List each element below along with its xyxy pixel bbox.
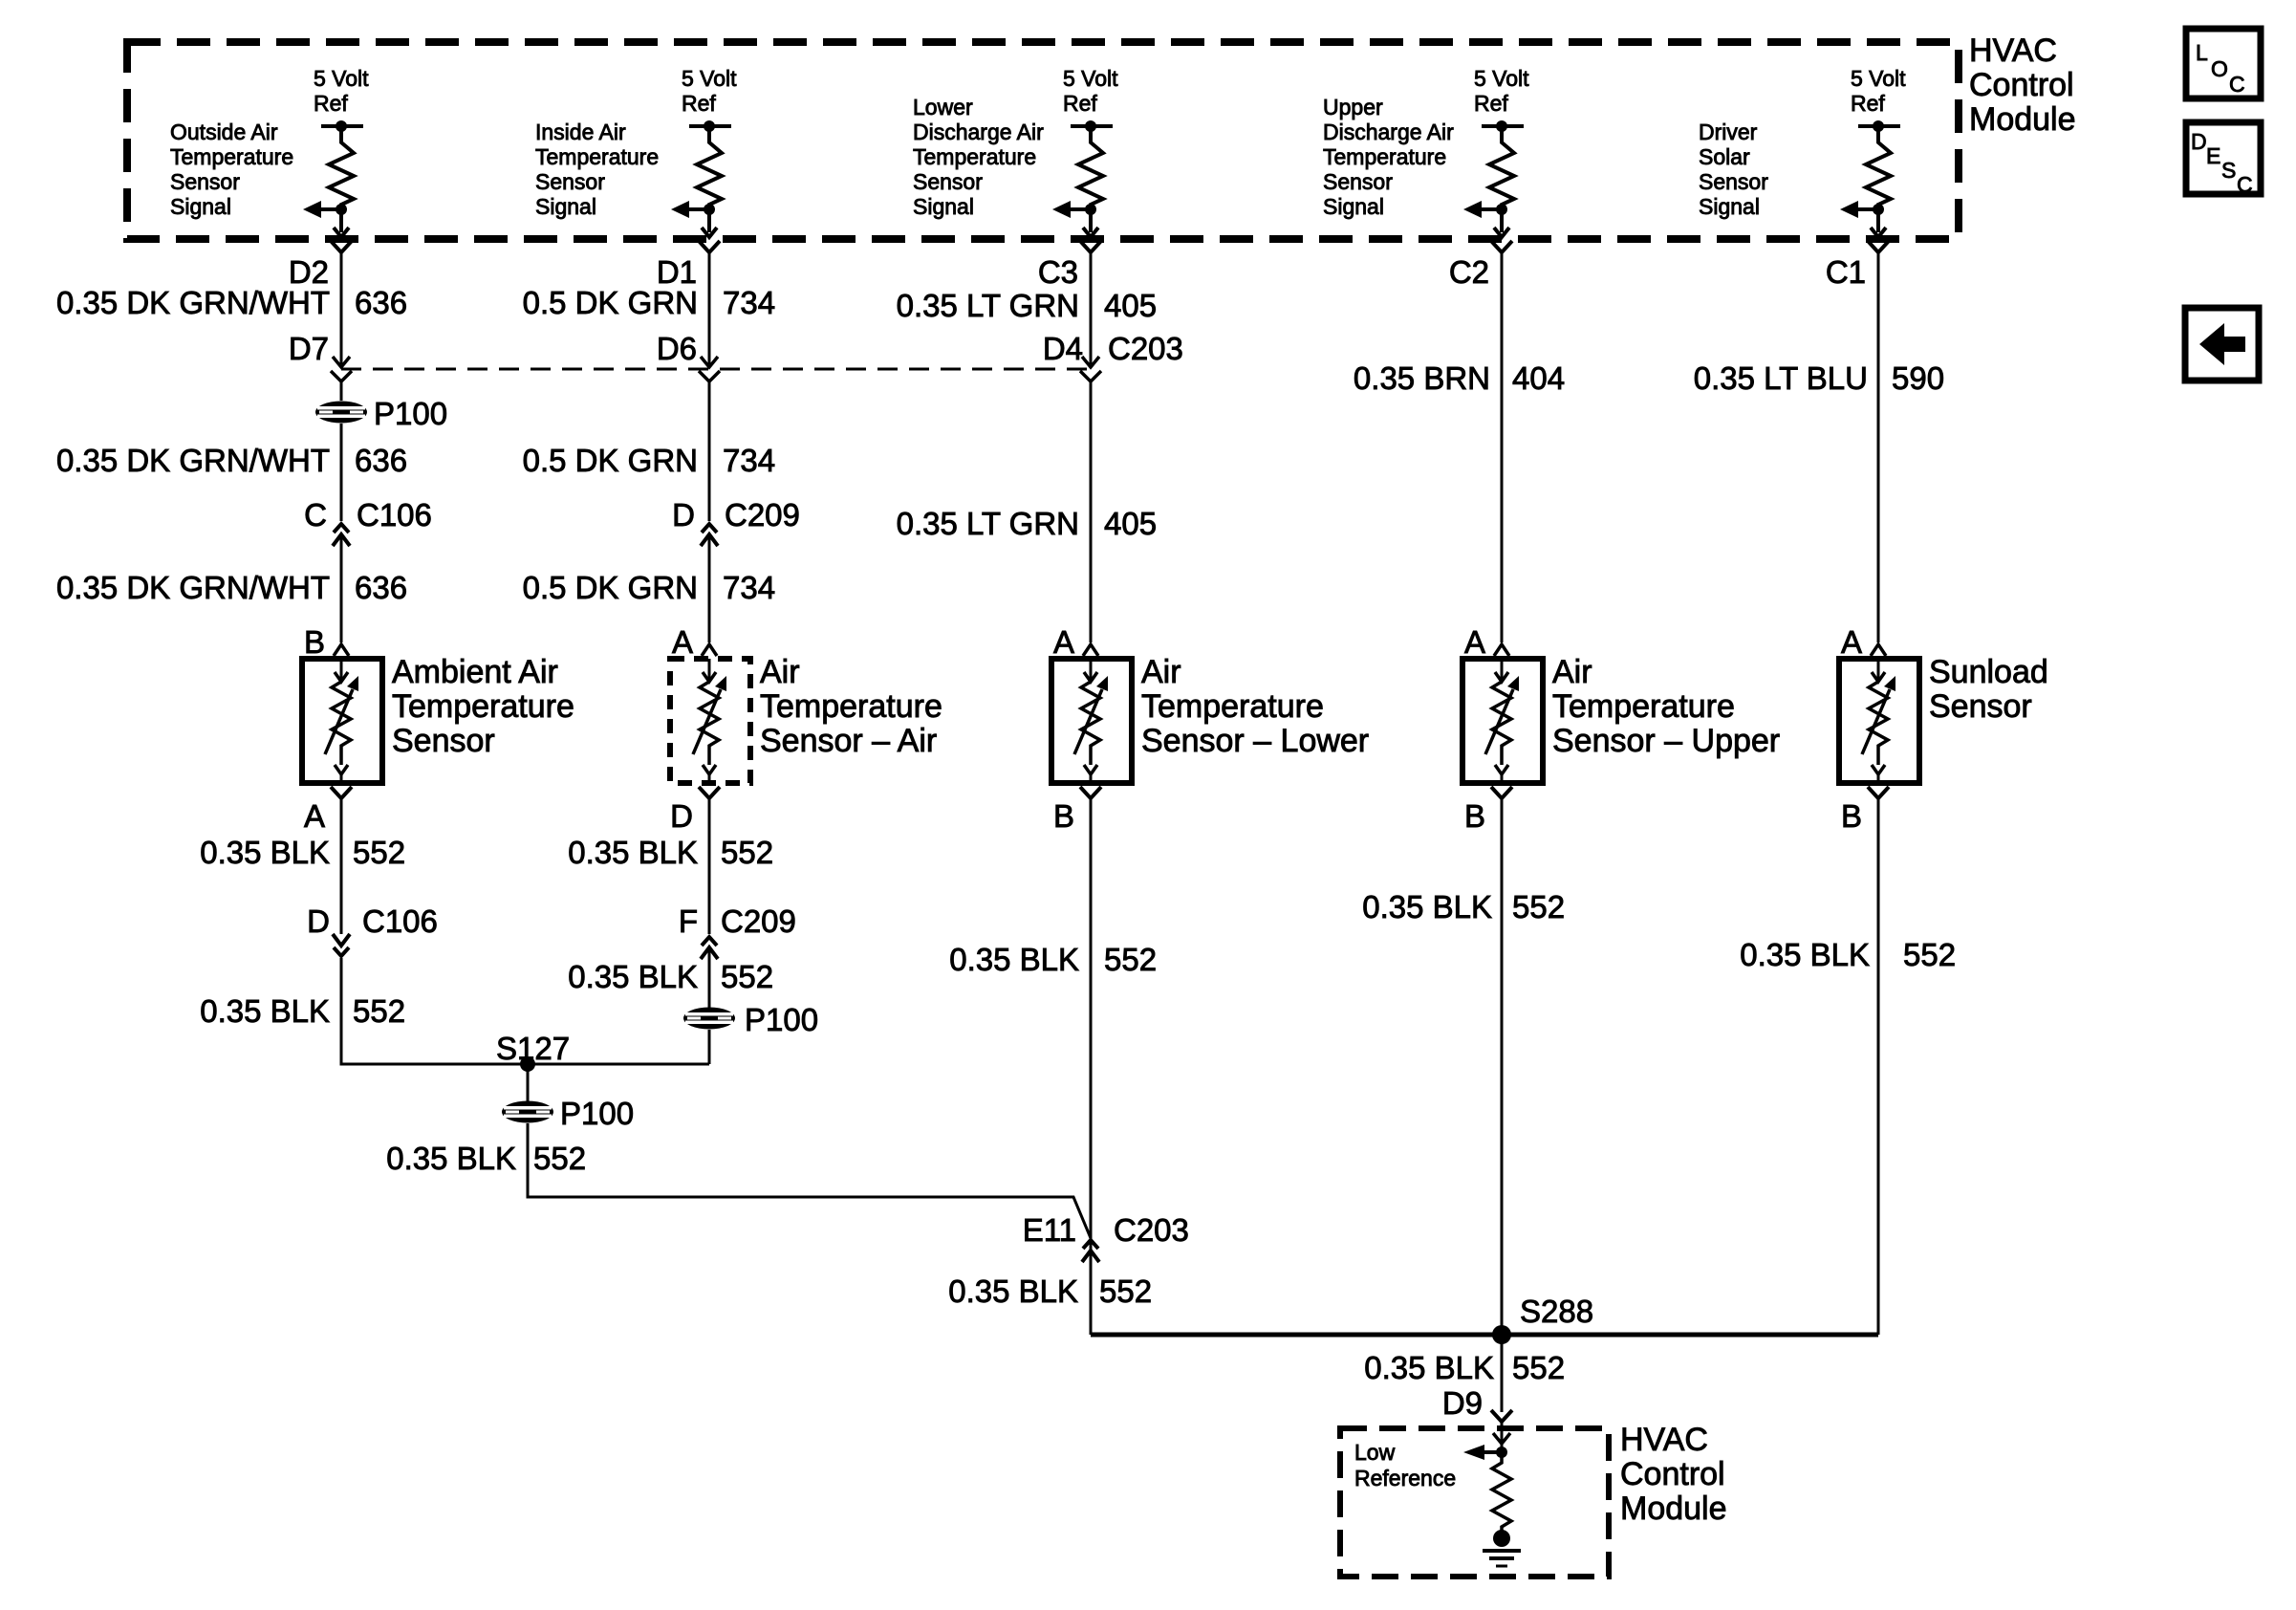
label: 5 Volt Ref (column x=357) [314, 66, 369, 116]
HVAC Control Module (bottom) dashed outline [1340, 1428, 1609, 1577]
svg-text:552: 552 [1903, 937, 1956, 972]
pin D4 label and connector C203 name [1043, 331, 1183, 366]
wire: P100 to C106 pin C (col 1) [340, 424, 343, 521]
label: Air Temperature Sensor - Air [760, 654, 942, 759]
svg-text:552: 552 [353, 993, 405, 1029]
svg-text:C203: C203 [1114, 1212, 1189, 1248]
svg-text:552: 552 [721, 959, 773, 994]
svg-text:552: 552 [1104, 942, 1157, 977]
svg-text:0.35 LT GRN: 0.35 LT GRN [897, 288, 1079, 323]
connector pin symbol at module edge, column x=357 [331, 241, 352, 259]
sensor pin entry chevron (col 1) [334, 644, 349, 656]
connector C203 pin D7 chevrons [331, 357, 352, 401]
svg-text:5 Volt: 5 Volt [1474, 66, 1529, 91]
connector C106 chevrons (col 1 upper) [333, 524, 350, 546]
label: HVAC Control Module (bottom) [1620, 1422, 1727, 1527]
pin D6 label (C203) [657, 331, 697, 366]
svg-text:Sensor: Sensor [170, 169, 240, 194]
svg-text:C2: C2 [1449, 254, 1489, 290]
svg-text:0.35 BLK: 0.35 BLK [200, 835, 330, 870]
label: Air Temperature Sensor - Lower [1141, 654, 1369, 759]
svg-text:Ref: Ref [1474, 91, 1508, 116]
splice S288 junction dot [1492, 1325, 1511, 1344]
resistor: inside air temperature sensor signal (module internal) [697, 126, 722, 232]
signal arrow: outside air temperature sensor signal output [303, 201, 349, 237]
svg-text:D6: D6 [657, 331, 697, 366]
ground symbol [1483, 1530, 1521, 1566]
svg-text:Temperature: Temperature [170, 144, 293, 169]
svg-text:734: 734 [723, 570, 775, 605]
connector C209 pin F label [679, 903, 796, 939]
connector C203 chevrons (pin E11) [1082, 1240, 1099, 1262]
pin A label (air temperature sensor - lower) [1053, 624, 1074, 660]
svg-text:Sensor: Sensor [1323, 169, 1393, 194]
svg-text:0.35 BLK: 0.35 BLK [1740, 937, 1870, 972]
wire value label 0.35 BLK 552 (col 2 row 1) [568, 835, 773, 870]
connector C209 chevrons (col 2 lower) [701, 937, 718, 959]
svg-text:636: 636 [355, 443, 407, 478]
pin D1 label [657, 254, 697, 290]
sensor pin exit chevron (col 4) [1491, 787, 1512, 805]
svg-text:0.35 DK GRN/WHT: 0.35 DK GRN/WHT [56, 285, 330, 320]
sensor pin entry chevron (col 4) [1494, 644, 1509, 656]
svg-text:Discharge Air: Discharge Air [913, 120, 1044, 144]
svg-text:Module: Module [1969, 101, 2076, 138]
label P100 (col 1) [374, 396, 447, 431]
svg-text:Ref: Ref [682, 91, 716, 116]
svg-text:P100: P100 [374, 396, 447, 431]
svg-text:Sensor: Sensor [913, 169, 983, 194]
pin C1 label [1826, 254, 1866, 290]
svg-text:C209: C209 [721, 903, 796, 939]
svg-text:Driver: Driver [1699, 120, 1758, 144]
svg-text:0.35 BLK: 0.35 BLK [1362, 889, 1492, 925]
svg-text:Air: Air [1141, 654, 1181, 690]
svg-text:0.35 LT BLU: 0.35 LT BLU [1694, 360, 1868, 396]
svg-text:0.35 BLK: 0.35 BLK [200, 993, 330, 1029]
connector C209 pin D label [672, 497, 800, 533]
label: 5 Volt Ref (column x=1571) [1474, 66, 1529, 116]
Sunload Sensor (box with variable resistor) [1839, 659, 1919, 783]
svg-text:E11: E11 [1023, 1212, 1076, 1248]
svg-text:Control: Control [1969, 67, 2074, 103]
svg-text:Temperature: Temperature [1323, 144, 1446, 169]
label: 5 Volt Ref (column x=742) [682, 66, 737, 116]
svg-text:Sensor: Sensor [1929, 688, 2032, 725]
svg-text:Temperature: Temperature [760, 688, 942, 725]
sensor pin entry chevron (col 5) [1871, 644, 1886, 656]
wire value label 0.35 DK GRN/WHT 636 (row 2) [56, 443, 407, 478]
pin D label (air temperature sensor - air) [670, 798, 693, 834]
svg-text:C209: C209 [725, 497, 800, 533]
svg-text:D7: D7 [289, 331, 329, 366]
connector pin symbol at module edge, column x=742 [699, 241, 720, 259]
svg-text:5 Volt: 5 Volt [1851, 66, 1906, 91]
svg-text:404: 404 [1512, 360, 1565, 396]
DESC legend box [2186, 122, 2261, 197]
pin A label (air temperature sensor - air) [672, 624, 693, 660]
svg-text:Signal: Signal [1699, 194, 1760, 219]
svg-text:0.35 BLK: 0.35 BLK [386, 1141, 516, 1176]
wire value label 0.35 BRN 404 [1354, 360, 1565, 396]
svg-text:552: 552 [1512, 889, 1565, 925]
svg-text:Temperature: Temperature [392, 688, 574, 725]
wire value label 0.35 BLK 552 (below E11) [948, 1273, 1152, 1309]
svg-text:B: B [304, 624, 325, 660]
svg-text:S127: S127 [496, 1031, 570, 1066]
legend box with left arrow [2185, 308, 2259, 381]
splice S127 junction dot [520, 1056, 535, 1072]
svg-text:Low: Low [1354, 1440, 1396, 1465]
wire: C106 pin D down and right to splice S127 [341, 958, 709, 1064]
svg-text:5 Volt: 5 Volt [314, 66, 369, 91]
wire: 5 volt ref bus stub with junction (column x=1141) [1071, 120, 1113, 132]
label: outside air temperature sensor signal [170, 120, 293, 219]
connector C203 pin D4 chevrons [1080, 357, 1101, 401]
sensor pin entry chevron (col 2) [702, 644, 717, 656]
svg-text:636: 636 [355, 285, 407, 320]
label P100 (splice branch) [560, 1096, 634, 1131]
svg-text:Sensor – Upper: Sensor – Upper [1552, 723, 1780, 759]
svg-text:636: 636 [355, 570, 407, 605]
svg-text:Lower: Lower [913, 95, 973, 120]
svg-text:552: 552 [1512, 1350, 1565, 1385]
wire value label 0.35 LT GRN 405 (row 2) [897, 506, 1157, 541]
wire: 5 volt ref bus stub with junction (column x=357) [321, 120, 363, 132]
pin B label (sunload sensor) [1841, 798, 1862, 834]
svg-text:0.35 DK GRN/WHT: 0.35 DK GRN/WHT [56, 443, 330, 478]
label: Air Temperature Sensor - Upper [1552, 654, 1780, 759]
svg-text:Control: Control [1620, 1456, 1725, 1492]
sensor pin exit chevron (col 2) [699, 787, 720, 805]
pin A label (air temperature sensor - upper) [1464, 624, 1485, 660]
wire: sensor pin B down to S288 ground run (col 3) [1090, 805, 1093, 1335]
svg-text:Ref: Ref [1063, 91, 1097, 116]
wire: sensor pin B down to splice S288 [1501, 805, 1504, 1335]
pin C3 label [1038, 254, 1078, 290]
svg-text:405: 405 [1104, 506, 1157, 541]
pin C2 label [1449, 254, 1489, 290]
svg-text:Module: Module [1620, 1490, 1727, 1527]
sensor pin exit chevron (col 5) [1868, 787, 1889, 805]
HVAC Control Module (top) dashed outline [127, 42, 1959, 239]
svg-text:Temperature: Temperature [913, 144, 1036, 169]
connector pin symbol at module edge, column x=1571 [1491, 241, 1512, 259]
svg-text:F: F [679, 903, 698, 939]
wire value label 0.5 DK GRN 734 (row 3) [523, 570, 775, 605]
Ambient Air Temperature Sensor (box with variable resistor) [302, 659, 382, 783]
svg-text:0.35 BLK: 0.35 BLK [568, 835, 698, 870]
wire value label 0.35 BLK 552 (col 3) [949, 942, 1157, 977]
svg-text:0.35 DK GRN/WHT: 0.35 DK GRN/WHT [56, 570, 330, 605]
svg-text:734: 734 [723, 285, 775, 320]
svg-text:C203: C203 [1108, 331, 1183, 366]
connector C209 chevrons (col 2 upper) [701, 524, 718, 546]
svg-text:Air: Air [1552, 654, 1592, 690]
wire: S288 down to HVAC control module pin D9 [1501, 1335, 1504, 1412]
svg-text:590: 590 [1892, 360, 1944, 396]
signal arrow: lower discharge air temperature sensor signal output [1052, 201, 1098, 237]
wire: HVAC module pin C3 down to C203 (col 3) [1090, 259, 1093, 364]
connector pin symbol at module edge, column x=1965 [1868, 241, 1889, 259]
svg-text:S: S [2221, 158, 2236, 183]
svg-text:S288: S288 [1520, 1294, 1593, 1329]
svg-text:0.35 BRN: 0.35 BRN [1354, 360, 1490, 396]
svg-text:552: 552 [353, 835, 405, 870]
signal arrow: upper discharge air temperature sensor signal output [1463, 201, 1509, 237]
wire: C106 to ambient sensor pin B [340, 535, 343, 642]
wire value label 0.35 BLK 552 (S288 to D9) [1364, 1350, 1565, 1385]
svg-text:552: 552 [1099, 1273, 1152, 1309]
Air Temperature Sensor - Lower (box with variable resistor) [1051, 659, 1132, 783]
inline harness connector C203 dashed line [341, 368, 1091, 371]
wire value label 0.35 BLK 552 (splice branch) [386, 1141, 586, 1176]
wire value label 0.35 BLK 552 (col 1 row 1) [200, 835, 405, 870]
label: Low Reference [1354, 1440, 1456, 1490]
wire value label 0.35 LT BLU 590 [1694, 360, 1944, 396]
pin B label (air temperature sensor - lower) [1053, 798, 1074, 834]
svg-text:C: C [2229, 72, 2245, 97]
svg-text:D: D [307, 903, 330, 939]
svg-text:C3: C3 [1038, 254, 1078, 290]
svg-text:A: A [1053, 624, 1074, 660]
svg-text:D: D [672, 497, 695, 533]
signal arrow: inside air temperature sensor signal output [671, 201, 717, 237]
label: Sunload Sensor [1929, 654, 2048, 725]
label: upper discharge air temperature sensor signal [1323, 95, 1454, 219]
wire: ground bus from col 3 to col 5 through splice S288 [1091, 1333, 1878, 1338]
svg-text:C106: C106 [362, 903, 438, 939]
svg-text:405: 405 [1104, 288, 1157, 323]
label: Ambient Air Temperature Sensor [392, 654, 574, 759]
wire: HVAC module pin D2 down to C203 (col 1) [340, 259, 343, 364]
svg-text:L: L [2196, 40, 2208, 65]
label: lower discharge air temperature sensor signal [913, 95, 1044, 219]
wire: HVAC module pin C2 down to sensor (col 4) [1501, 259, 1504, 642]
svg-text:D: D [670, 798, 693, 834]
wire: 5 volt ref bus stub with junction (column x=742) [689, 120, 731, 132]
pin A label (sunload sensor) [1841, 624, 1862, 660]
svg-text:HVAC: HVAC [1620, 1422, 1708, 1458]
resistor (low reference, module internal) [1492, 1452, 1511, 1531]
wire: 5 volt ref bus stub with junction (column x=1571) [1482, 120, 1524, 132]
svg-text:A: A [1841, 624, 1862, 660]
grommet P100 (col 1) [315, 402, 367, 424]
wire: S127 down to P100 (splice branch) [527, 1064, 530, 1101]
connector C203 pin D6 chevrons [699, 357, 720, 401]
svg-text:Upper: Upper [1323, 95, 1383, 120]
wire: C209 to air temperature sensor pin A [708, 535, 711, 642]
svg-text:0.35 BLK: 0.35 BLK [568, 959, 698, 994]
label: inside air temperature sensor signal [535, 120, 659, 219]
pin D7 label (C203) [289, 331, 329, 366]
svg-text:Inside Air: Inside Air [535, 120, 626, 144]
svg-text:Outside Air: Outside Air [170, 120, 278, 144]
svg-text:E: E [2206, 143, 2220, 168]
svg-text:0.35 BLK: 0.35 BLK [1364, 1350, 1494, 1385]
wire value label 0.35 LT GRN 405 (row 1) [897, 288, 1157, 323]
wire value label 0.35 BLK 552 (col 5) [1740, 937, 1956, 972]
label P100 (col 2) [745, 1002, 818, 1037]
wire value label 0.35 BLK 552 (col 4) [1362, 889, 1565, 925]
wire value label 0.35 BLK 552 (col 1 row 2) [200, 993, 405, 1029]
svg-text:Temperature: Temperature [1141, 688, 1324, 725]
svg-text:Solar: Solar [1699, 144, 1750, 169]
svg-text:C106: C106 [357, 497, 432, 533]
svg-text:0.5 DK GRN: 0.5 DK GRN [523, 570, 698, 605]
wire: HVAC module pin D1 down to C203 (col 2) [708, 259, 711, 364]
sensor pin entry chevron (col 3) [1083, 644, 1098, 656]
svg-text:Temperature: Temperature [1552, 688, 1735, 725]
resistor: driver solar sensor signal (module internal) [1866, 126, 1891, 232]
svg-text:Sensor: Sensor [535, 169, 605, 194]
svg-text:Sensor: Sensor [1699, 169, 1768, 194]
wire: 5 volt ref bus stub with junction (column x=1965) [1858, 120, 1900, 132]
resistor: upper discharge air temperature sensor signal (module internal) [1489, 126, 1514, 232]
pin A label (ambient air temperature sensor) [304, 798, 325, 834]
svg-text:Sensor – Lower: Sensor – Lower [1141, 723, 1369, 759]
svg-text:Sensor – Air: Sensor – Air [760, 723, 937, 759]
connector C106 chevrons (col 1 lower) [333, 934, 350, 956]
svg-text:Ref: Ref [314, 91, 348, 116]
wire value label 0.35 BLK 552 (col 2 row 2) [568, 959, 773, 994]
svg-text:P100: P100 [560, 1096, 634, 1131]
svg-text:0.35 BLK: 0.35 BLK [948, 1273, 1078, 1309]
svg-text:Signal: Signal [1323, 194, 1384, 219]
label: 5 Volt Ref (column x=1141) [1063, 66, 1118, 116]
svg-text:5 Volt: 5 Volt [682, 66, 737, 91]
svg-text:D: D [2191, 129, 2207, 154]
pin D2 label [289, 254, 329, 290]
svg-text:A: A [672, 624, 693, 660]
svg-text:Ref: Ref [1851, 91, 1885, 116]
svg-text:Reference: Reference [1354, 1466, 1456, 1490]
svg-text:0.35 LT GRN: 0.35 LT GRN [897, 506, 1079, 541]
wire: C203 down to air temperature sensor lower pin A [1090, 401, 1093, 642]
wire: sensor pin B down to S288 ground run (col 5) [1877, 805, 1880, 1335]
svg-text:C1: C1 [1826, 254, 1866, 290]
svg-text:Sensor: Sensor [392, 723, 495, 759]
wire: P100 down, right, and diagonal to C203 pin E11 [528, 1123, 1091, 1238]
svg-text:D4: D4 [1043, 331, 1083, 366]
grommet P100 (col 2) [683, 1008, 735, 1030]
grommet P100 (splice branch) [502, 1101, 553, 1123]
svg-text:A: A [1464, 624, 1485, 660]
svg-text:Signal: Signal [170, 194, 231, 219]
wire: P100 down to splice S127 horizontal run [708, 1030, 711, 1064]
label: 5 Volt Ref (column x=1965) [1851, 66, 1906, 116]
svg-text:B: B [1841, 798, 1862, 834]
sensor pin exit chevron (col 3) [1080, 787, 1101, 805]
Air Temperature Sensor - Air (dashed box with variable resistor) [670, 659, 750, 783]
sensor pin exit chevron (col 1) [331, 787, 352, 805]
low reference signal arrow (left) [1463, 1445, 1507, 1460]
pin D9 label [1442, 1385, 1483, 1421]
connector C106 pin C label [304, 497, 432, 533]
svg-text:Sunload: Sunload [1929, 654, 2048, 690]
wire value label 0.5 DK GRN 734 (row 2) [523, 443, 775, 478]
svg-text:O: O [2211, 56, 2228, 81]
signal arrow: driver solar sensor signal output [1840, 201, 1886, 237]
svg-text:A: A [304, 798, 325, 834]
svg-text:Signal: Signal [535, 194, 596, 219]
svg-text:0.5 DK GRN: 0.5 DK GRN [523, 443, 698, 478]
svg-text:P100: P100 [745, 1002, 818, 1037]
wire value label 0.5 DK GRN 734 (row 1) [523, 285, 775, 320]
svg-text:C: C [2237, 172, 2253, 197]
wire: HVAC module pin C1 down to sunload sensor (col 5) [1877, 259, 1880, 642]
svg-text:552: 552 [721, 835, 773, 870]
Air Temperature Sensor - Upper (box with variable resistor) [1462, 659, 1543, 783]
resistor: lower discharge air temperature sensor signal (module internal) [1078, 126, 1103, 232]
wire value label 0.35 DK GRN/WHT 636 (row 1) [56, 285, 407, 320]
wire: C203 down to C209 pin D (col 2) [708, 401, 711, 521]
connector C106 pin D label [307, 903, 438, 939]
LOC legend box [2186, 29, 2261, 98]
svg-text:0.5 DK GRN: 0.5 DK GRN [523, 285, 698, 320]
svg-text:Temperature: Temperature [535, 144, 659, 169]
svg-text:B: B [1464, 798, 1485, 834]
resistor: outside air temperature sensor signal (module internal) [329, 126, 354, 232]
wire: sensor pin D down to C209 pin F [708, 805, 711, 934]
connector pin symbol at module edge, column x=1141 [1080, 241, 1101, 259]
svg-text:Discharge Air: Discharge Air [1323, 120, 1454, 144]
label S288 [1520, 1294, 1593, 1329]
svg-text:552: 552 [533, 1141, 586, 1176]
svg-text:0.35 BLK: 0.35 BLK [949, 942, 1079, 977]
pin B label (air temperature sensor - upper) [1464, 798, 1485, 834]
svg-text:Signal: Signal [913, 194, 974, 219]
svg-text:C: C [304, 497, 327, 533]
wire value label 0.35 DK GRN/WHT 636 (row 3) [56, 570, 407, 605]
wire: sensor pin A down to C106 pin D [340, 805, 343, 934]
svg-text:HVAC: HVAC [1969, 33, 2057, 69]
svg-text:Air: Air [760, 654, 800, 690]
wire: C209 pin F down to P100 (col 2) [708, 948, 711, 1008]
pin B label (ambient air temperature sensor) [304, 624, 325, 660]
label S127 [496, 1031, 570, 1066]
label: driver solar sensor signal [1699, 120, 1768, 219]
label: HVAC Control Module (top right) [1969, 33, 2076, 138]
svg-text:5 Volt: 5 Volt [1063, 66, 1118, 91]
svg-text:B: B [1053, 798, 1074, 834]
svg-text:D9: D9 [1442, 1385, 1483, 1421]
low reference internal circuit: entry arrow [1493, 1428, 1510, 1452]
connector C203 pin E11 label [1023, 1212, 1189, 1248]
svg-text:Ambient Air: Ambient Air [392, 654, 558, 690]
connector pin symbol at lower module edge (D9) [1491, 1410, 1512, 1428]
svg-text:734: 734 [723, 443, 775, 478]
